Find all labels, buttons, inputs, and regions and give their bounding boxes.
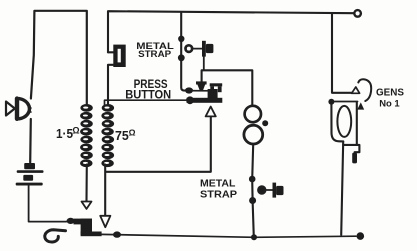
svg-text:GENS: GENS	[376, 88, 404, 99]
node (strap2 top)	[249, 176, 256, 183]
press button assembly	[185, 81, 223, 104]
wire coil1 to arrow	[85, 165, 87, 202]
wire gens to bottom bus	[341, 141, 343, 234]
node (gens)	[328, 99, 334, 105]
terminal (top right ring)	[354, 10, 361, 17]
svg-text:BUTTON: BUTTON	[125, 88, 171, 102]
metal strap link (bottom)	[258, 183, 283, 198]
label METAL STRAP (bottom)	[200, 178, 237, 200]
svg-text:METAL: METAL	[200, 178, 235, 189]
wire top bus 2	[108, 11, 354, 52]
spring hook	[45, 230, 66, 242]
wire 75ohm coil top to press button	[105, 100, 187, 105]
gens clip triangle	[352, 87, 360, 93]
receiver block (metal strap target, top-left)	[108, 45, 126, 105]
svg-text:STRAP: STRAP	[138, 49, 172, 60]
arrow (down, coil2 to block)	[100, 216, 110, 227]
arrow (filled, gens)	[357, 102, 364, 109]
inductor L1 1.5ohm	[80, 104, 93, 167]
svg-text:No 1: No 1	[379, 99, 400, 110]
label 75 ohm	[115, 127, 136, 143]
wire strap2 segment	[252, 179, 254, 237]
contact block (switch)	[74, 219, 102, 237]
svg-text:75: 75	[115, 129, 129, 143]
label 1.5 ohm	[56, 126, 80, 141]
node (bottom junction)	[251, 234, 257, 240]
svg-text:1·5: 1·5	[56, 127, 73, 141]
wire right drop	[332, 13, 358, 93]
node (switch right)	[113, 231, 121, 237]
metal strap link (top)	[186, 41, 214, 70]
label PRESS BUTTON	[125, 77, 171, 102]
terminal (bottom right)	[357, 232, 365, 240]
jack circles	[244, 106, 268, 144]
svg-text:Ω: Ω	[72, 126, 79, 136]
wire metal-strap vertical (x=181)	[181, 13, 184, 91]
wire gens lower horizontal	[334, 101, 357, 103]
wire bottom bus	[101, 234, 356, 237]
wire press-button top link	[202, 70, 253, 105]
node (strap bottom)	[178, 54, 185, 61]
wire top-left loop	[31, 11, 87, 105]
wire coil2 bottom T	[105, 117, 211, 216]
inductor L2 75ohm	[101, 104, 114, 167]
wire earphone to battery	[29, 119, 32, 163]
arrow (down, at contact block)	[82, 202, 92, 209]
svg-text:STRAP: STRAP	[200, 190, 237, 201]
wire battery to contact block	[29, 186, 67, 222]
svg-text:Ω: Ω	[129, 127, 136, 137]
earphone P1	[6, 99, 31, 119]
wire jack to strap	[251, 144, 254, 176]
label GENS No 1	[376, 88, 404, 110]
node (strap2 bottom)	[249, 197, 256, 204]
node (switch left)	[67, 218, 75, 224]
gens bobbin	[331, 103, 359, 164]
label METAL STRAP (top)	[136, 41, 174, 60]
node (strap top)	[178, 36, 184, 42]
battery B1	[16, 163, 44, 186]
arrow (up, to press button)	[206, 107, 216, 117]
gens hook	[358, 79, 371, 101]
